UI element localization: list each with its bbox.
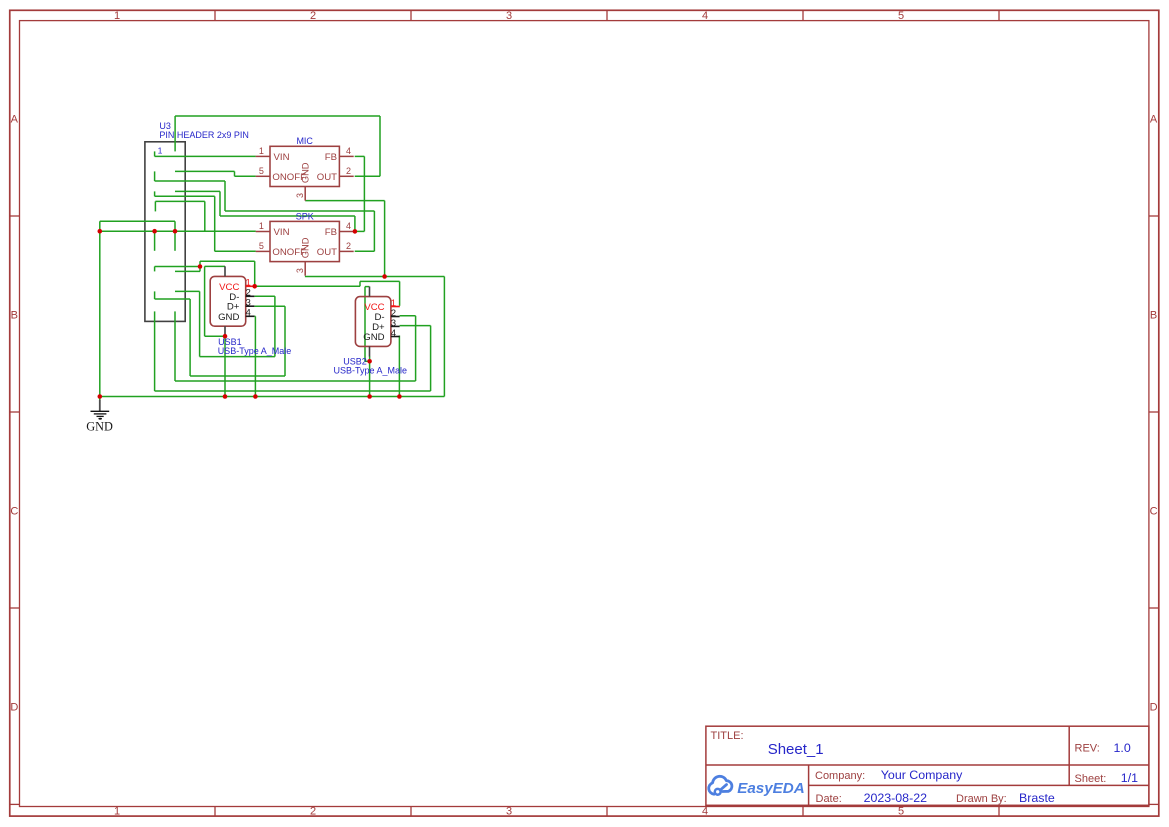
svg-text:MIC: MIC (296, 136, 313, 146)
svg-text:GND: GND (300, 162, 310, 183)
svg-text:Company:: Company: (815, 770, 865, 782)
svg-text:4: 4 (346, 221, 351, 231)
svg-text:OUT: OUT (317, 247, 337, 258)
svg-text:4: 4 (702, 10, 708, 22)
svg-text:VIN: VIN (274, 152, 290, 163)
svg-text:D: D (1150, 701, 1158, 713)
svg-text:FB: FB (325, 227, 337, 238)
svg-text:3: 3 (295, 268, 305, 273)
svg-text:USB-Type A_Male: USB-Type A_Male (334, 365, 408, 375)
svg-text:1: 1 (259, 146, 264, 156)
svg-text:4: 4 (346, 146, 351, 156)
svg-text:2: 2 (310, 10, 316, 22)
svg-text:C: C (1150, 505, 1158, 517)
svg-text:5: 5 (898, 806, 904, 818)
svg-text:Date:: Date: (816, 793, 842, 805)
svg-text:C: C (10, 505, 18, 517)
svg-text:Drawn By:: Drawn By: (956, 793, 1007, 805)
svg-text:1: 1 (114, 10, 120, 22)
svg-text:GND: GND (218, 312, 239, 323)
svg-text:4: 4 (702, 806, 708, 818)
svg-text:Braste: Braste (1019, 791, 1055, 805)
svg-text:4: 4 (391, 328, 397, 339)
svg-text:Your Company: Your Company (881, 768, 963, 782)
svg-text:GND: GND (363, 332, 384, 343)
svg-text:2: 2 (346, 166, 351, 176)
svg-text:1/1: 1/1 (1121, 771, 1138, 785)
svg-text:2: 2 (310, 806, 316, 818)
svg-text:1: 1 (158, 145, 163, 155)
svg-text:2: 2 (346, 241, 351, 251)
svg-text:1: 1 (259, 221, 264, 231)
svg-text:OUT: OUT (317, 172, 337, 183)
svg-text:4: 4 (246, 308, 252, 319)
svg-text:TITLE:: TITLE: (711, 730, 744, 742)
svg-text:A: A (11, 113, 19, 125)
svg-text:1.0: 1.0 (1114, 741, 1131, 755)
svg-text:PIN HEADER 2x9 PIN: PIN HEADER 2x9 PIN (159, 130, 249, 140)
svg-text:Sheet:: Sheet: (1075, 773, 1107, 785)
svg-text:1: 1 (114, 806, 120, 818)
svg-text:EasyEDA: EasyEDA (737, 780, 805, 797)
svg-text:GND: GND (300, 237, 310, 258)
svg-text:D: D (10, 701, 18, 713)
svg-text:A: A (1150, 113, 1158, 125)
svg-text:B: B (1150, 309, 1157, 321)
svg-text:VIN: VIN (274, 227, 290, 238)
svg-text:2023-08-22: 2023-08-22 (864, 791, 927, 805)
svg-text:SPK: SPK (296, 211, 314, 221)
svg-text:USB-Type A_Male: USB-Type A_Male (218, 346, 292, 356)
svg-text:FB: FB (325, 152, 337, 163)
svg-text:3: 3 (506, 10, 512, 22)
svg-text:5: 5 (259, 241, 264, 251)
svg-text:B: B (11, 309, 18, 321)
svg-text:Sheet_1: Sheet_1 (768, 741, 824, 758)
svg-text:5: 5 (259, 166, 264, 176)
svg-text:GND: GND (86, 419, 113, 433)
svg-text:5: 5 (898, 10, 904, 22)
svg-text:3: 3 (295, 193, 305, 198)
svg-text:REV:: REV: (1075, 743, 1100, 755)
svg-text:3: 3 (506, 806, 512, 818)
